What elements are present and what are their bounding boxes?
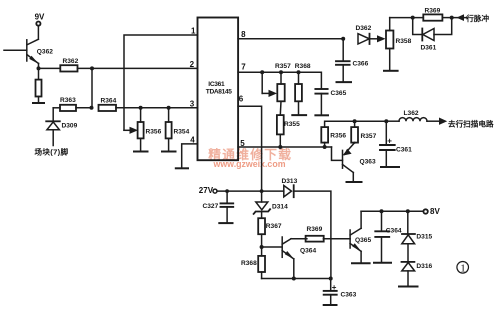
svg-text:D313: D313 (282, 178, 298, 185)
svg-text:8: 8 (241, 30, 246, 39)
svg-text:R364: R364 (101, 98, 117, 105)
diode D315 (407, 211, 409, 234)
resistor R355 (277, 115, 284, 134)
node (380, 209, 384, 213)
resistor R362 (60, 65, 77, 71)
8V terminal (423, 209, 427, 213)
node (406, 209, 410, 213)
wire (pin5 line) (238, 146, 331, 148)
svg-text:Q362: Q362 (37, 48, 53, 55)
svg-text:C327: C327 (203, 203, 219, 210)
capacitor C327 (226, 191, 228, 203)
resistor R357 (second) (351, 127, 358, 143)
svg-text:IC361: IC361 (208, 81, 225, 88)
svg-text:C363: C363 (341, 292, 357, 299)
ground (134, 151, 148, 153)
transistor Q362 (37, 26, 39, 40)
svg-text:Q363: Q363 (360, 159, 376, 166)
wire (pin1 line) (124, 35, 198, 130)
svg-text:R357: R357 (275, 63, 291, 70)
wire (emitter rail) (262, 278, 331, 280)
node (167, 106, 171, 110)
svg-text:D309: D309 (62, 123, 78, 130)
ground (352, 262, 370, 264)
svg-text:Q364: Q364 (300, 247, 316, 254)
node (341, 37, 345, 41)
ground (33, 102, 44, 104)
ground (381, 166, 399, 168)
resistor R367 (258, 218, 265, 234)
capacitor C361 (385, 121, 387, 144)
svg-text:D315: D315 (416, 234, 432, 241)
svg-text:R362: R362 (63, 58, 79, 65)
node (292, 277, 296, 281)
capacitor C365 (315, 88, 327, 90)
capacitor C364 (381, 211, 383, 231)
svg-text:C366: C366 (353, 60, 369, 67)
wire (Q364 base) (262, 246, 282, 248)
svg-text:D316: D316 (416, 263, 432, 270)
svg-text:D361: D361 (421, 45, 437, 52)
resistor R356 (second) (321, 127, 328, 143)
wire (去行扫描电路 output) (427, 120, 440, 122)
op-amp U1: IC361 TDA8145 (198, 18, 239, 161)
svg-text:R354: R354 (174, 128, 190, 135)
node (260, 245, 264, 249)
svg-text:2: 2 (190, 60, 195, 69)
node (90, 66, 94, 70)
capacitor C363 (330, 279, 332, 291)
node (139, 106, 143, 110)
svg-text:D362: D362 (356, 25, 372, 32)
svg-text:R367: R367 (266, 223, 282, 230)
ground (292, 114, 306, 116)
ground (337, 81, 352, 83)
svg-text:C361: C361 (396, 146, 412, 153)
node (353, 119, 357, 123)
diode D313 (284, 186, 292, 197)
wire (pin8 line) (238, 38, 343, 40)
wire (wiper of R357) (261, 72, 263, 93)
wire (wiper arrow of R356) (124, 129, 130, 131)
9V terminal (36, 22, 40, 26)
capacitor C366 (342, 39, 344, 61)
ground (315, 114, 328, 116)
ground (324, 304, 337, 306)
svg-text:R356: R356 (146, 128, 162, 135)
potentiometer R358 (386, 31, 393, 49)
svg-text:R369: R369 (425, 7, 441, 14)
node (323, 145, 327, 149)
potentiometer R356 (140, 108, 142, 122)
svg-text:1: 1 (191, 27, 196, 36)
diode D361 (413, 18, 423, 35)
node (450, 16, 454, 20)
node (emitter junction) (37, 66, 41, 70)
svg-text:TDA8145: TDA8145 (206, 88, 232, 95)
svg-text:R357: R357 (361, 133, 377, 140)
node (384, 119, 388, 123)
wire (to Q363 base) (332, 147, 343, 160)
diode D314 (261, 191, 263, 202)
svg-text:行脉冲: 行脉冲 (465, 13, 489, 23)
svg-text:C364: C364 (386, 227, 402, 234)
ground (347, 181, 362, 183)
wire (442, 17, 451, 19)
svg-text:R369: R369 (307, 226, 323, 233)
node (297, 70, 301, 74)
wire (pin4 to ground) (182, 144, 198, 168)
wire (pin6 line) (238, 106, 262, 191)
diode D362 (358, 34, 369, 44)
wire (行脉冲 input) (452, 17, 467, 19)
ground (399, 286, 418, 288)
wire (pin7 line) (238, 72, 321, 88)
svg-text:D314: D314 (272, 204, 288, 211)
wire (294, 191, 331, 278)
diode D309 (52, 108, 54, 122)
ground (176, 167, 188, 169)
node (278, 145, 282, 149)
svg-text:1: 1 (460, 263, 466, 275)
svg-text:8V: 8V (430, 207, 440, 216)
resistor R368 (298, 72, 300, 84)
transistor Q364 (281, 237, 283, 257)
resistor R369 (423, 14, 442, 20)
svg-text:R368: R368 (241, 260, 257, 267)
svg-text:去行扫描电路: 去行扫描电路 (448, 118, 494, 128)
node (225, 189, 229, 193)
27V terminal (213, 189, 217, 193)
node (260, 189, 264, 193)
svg-text:27V: 27V (199, 186, 214, 195)
svg-text:3: 3 (190, 100, 195, 109)
resistor R369 (second) (291, 238, 307, 240)
wire (27V rail) (217, 190, 284, 192)
wire (8V rail) (361, 210, 423, 212)
svg-text:L362: L362 (404, 110, 419, 117)
wire (390, 17, 424, 19)
svg-text:7: 7 (241, 63, 246, 72)
wire (39, 67, 61, 69)
svg-text:9V: 9V (35, 13, 45, 22)
resistor R368 (second) (261, 247, 263, 256)
svg-text:R358: R358 (396, 38, 412, 45)
ground (162, 151, 176, 153)
ground (219, 222, 232, 224)
diode D316 (407, 244, 409, 262)
wire (to Q365 base) (323, 238, 350, 240)
wire (pin3 line) (116, 107, 198, 109)
node (329, 277, 333, 281)
resistor R354 (168, 108, 170, 122)
resistor R364 (99, 105, 117, 111)
transistor Q365 (349, 230, 351, 248)
wire (91, 68, 93, 107)
transistor Q363 (342, 150, 344, 168)
svg-text:R363: R363 (60, 97, 76, 104)
node (260, 70, 264, 74)
ground (384, 70, 398, 72)
wire (78, 67, 198, 69)
node (411, 16, 415, 20)
svg-text:R356: R356 (330, 133, 346, 140)
resistor (Q362 emitter) (38, 68, 40, 79)
svg-text:C365: C365 (331, 90, 347, 97)
ground (374, 262, 391, 264)
svg-text:场块(7)脚: 场块(7)脚 (35, 146, 69, 156)
inductor L362 (386, 120, 399, 122)
svg-text:R368: R368 (295, 63, 311, 70)
node (279, 70, 283, 74)
potentiometer R357 (280, 72, 282, 84)
svg-text:6: 6 (239, 95, 244, 104)
node marker ① (457, 262, 469, 274)
svg-text:Q365: Q365 (355, 237, 371, 244)
resistor R363 (53, 107, 60, 109)
svg-text:R355: R355 (284, 121, 300, 128)
node (90, 106, 94, 110)
